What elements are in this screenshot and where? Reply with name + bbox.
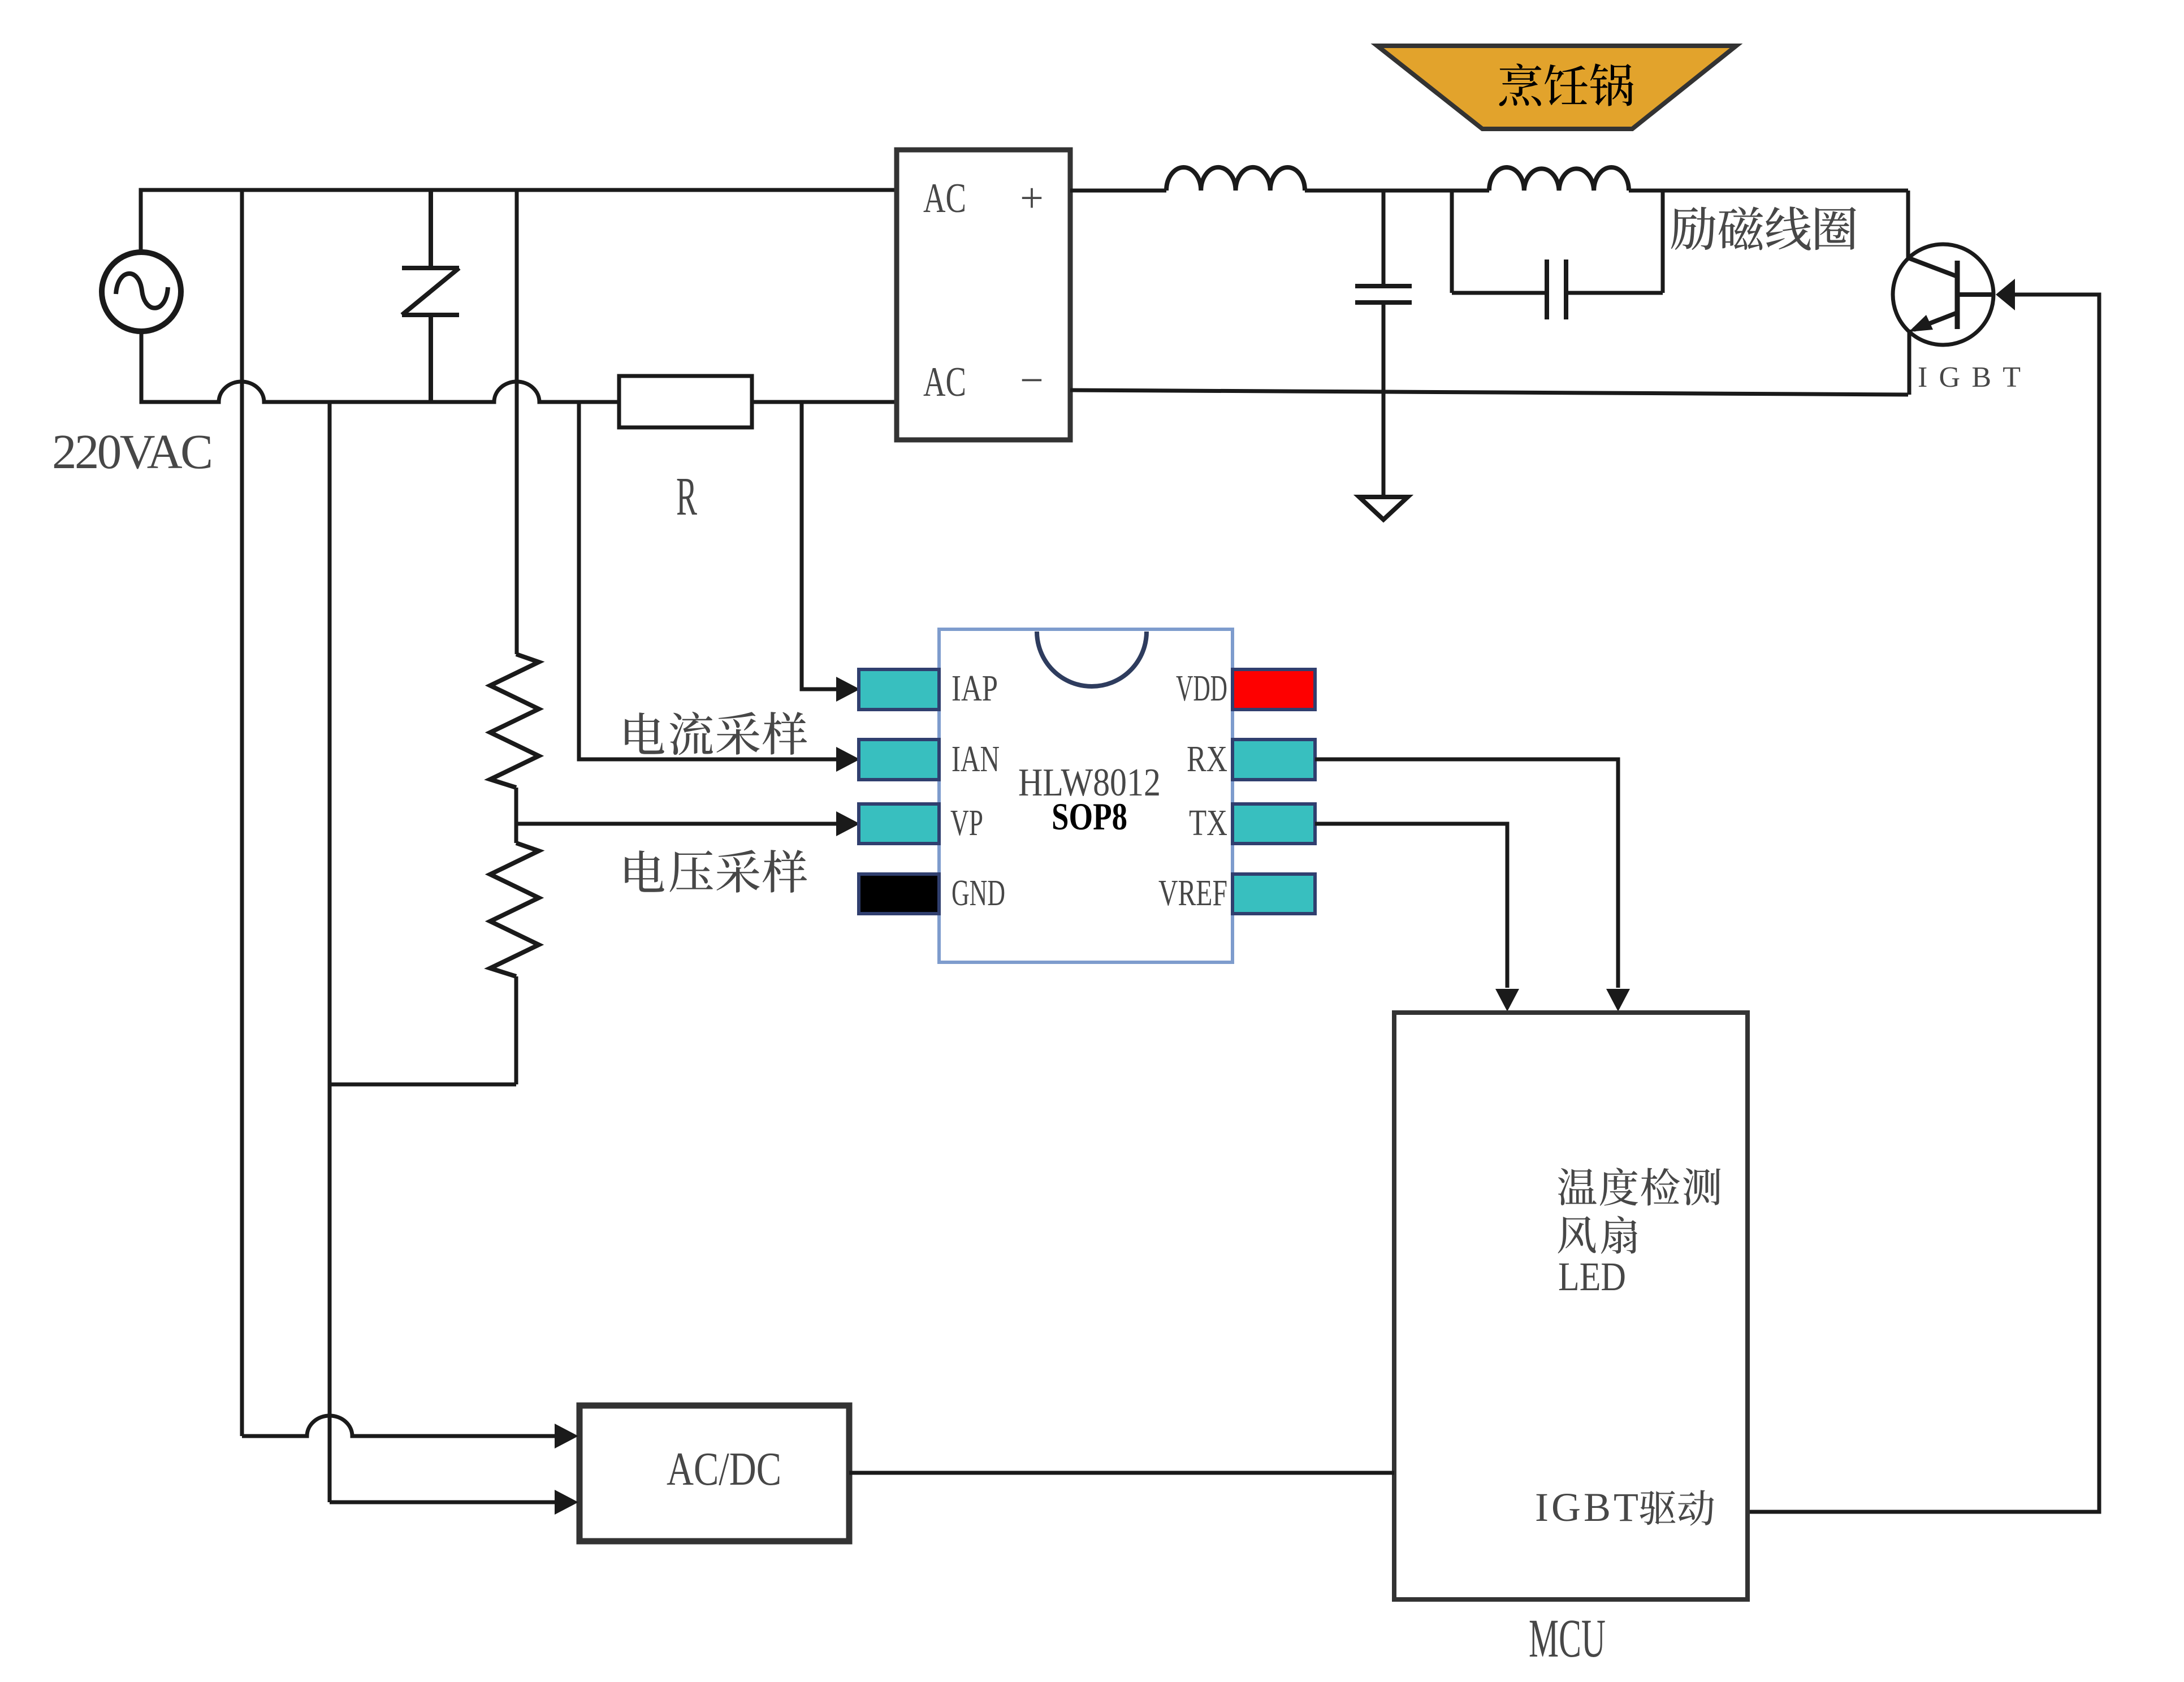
svg-text:AC/DC: AC/DC: [667, 1443, 781, 1495]
wire IAN tap (current sample -): [579, 402, 837, 759]
svg-text:TX: TX: [1189, 802, 1227, 844]
transistor Q1 IGBT: [1893, 191, 1993, 395]
svg-text:SOP8: SOP8: [1052, 795, 1127, 838]
ground: [1359, 497, 1408, 520]
wire AC/DC input 1 with hop: [242, 1416, 556, 1436]
wire R2 bottom stem: [514, 976, 518, 1084]
wire AC/DC input 2: [330, 1501, 556, 1504]
inductor L1 filter choke: [1166, 167, 1305, 191]
pin 2 IAN: [859, 740, 939, 780]
resistor R1 divider upper: [490, 654, 539, 788]
svg-text:LED: LED: [1558, 1254, 1626, 1299]
varistor RV1: [402, 190, 459, 402]
wire bottom rail N-line with hops: [141, 331, 619, 402]
pin 5 VREF: [1232, 874, 1315, 914]
svg-text:MCU: MCU: [1529, 1608, 1606, 1668]
wire top rail L-line: [141, 190, 897, 253]
resistor R2 divider lower: [490, 843, 539, 976]
wire bridge DC- rail: [1070, 390, 1908, 395]
capacitor C2 resonant with loop: [1452, 191, 1663, 319]
pin 1 IAP: [859, 669, 939, 710]
svg-text:AC: AC: [923, 175, 966, 222]
svg-text:+: +: [1020, 175, 1044, 222]
svg-text:VP: VP: [950, 802, 983, 844]
label 励磁线圈: [1671, 206, 1856, 250]
wire vertical N-tap to AC/DC and divider (node B): [328, 402, 332, 1502]
wire divider top stem: [515, 190, 519, 654]
wire TX to MCU: [1315, 824, 1507, 988]
AC source V1 220VAC: [102, 252, 181, 331]
svg-text:RX: RX: [1187, 738, 1227, 780]
wire R1-R2 link: [514, 788, 518, 843]
wire R to bridge: [752, 400, 897, 404]
label 电压采样: [625, 850, 807, 893]
capacitor C1 filter: [1355, 191, 1412, 496]
svg-text:IAN: IAN: [952, 738, 1000, 780]
svg-text:VREF: VREF: [1158, 872, 1227, 914]
pin 3 VP: [859, 804, 939, 844]
wire L2 to IGBT collector rail: [1629, 189, 1908, 193]
resistor R shunt: [619, 376, 752, 427]
wire divider bottom to node B: [330, 1083, 516, 1087]
label 风扇: [1558, 1216, 1637, 1253]
label 烹饪锅: [1499, 63, 1634, 106]
pin 7 RX: [1232, 740, 1315, 780]
svg-text:GND: GND: [952, 872, 1005, 914]
label 温度检测: [1558, 1168, 1720, 1205]
wire bridge DC+ out: [1070, 189, 1166, 193]
svg-text:IAP: IAP: [952, 668, 998, 709]
svg-text:VDD: VDD: [1176, 668, 1227, 709]
wire IGBT gate drive: [1996, 279, 2015, 310]
inductor L2 heating coil: [1489, 167, 1629, 191]
wire IAP tap (current sample +): [802, 402, 837, 689]
wire AC/DC output to MCU: [849, 1471, 1394, 1475]
svg-text:220VAC: 220VAC: [52, 424, 213, 479]
wire VP tap (voltage sample): [516, 822, 837, 826]
wire RX to MCU: [1315, 759, 1618, 988]
svg-text:−: −: [1020, 357, 1044, 404]
IC notch: [1037, 632, 1147, 686]
pin 6 TX: [1232, 804, 1315, 844]
label IGBT驱动 cjk: [1640, 1490, 1714, 1525]
svg-text:R: R: [676, 466, 697, 526]
IC U1 HLW8012 SOP8 body: [939, 629, 1232, 962]
wire L1 to L2: [1305, 189, 1489, 193]
pin 8 VDD: [1232, 669, 1315, 710]
svg-text:AC: AC: [923, 359, 966, 405]
bridge rectifier U2: [897, 150, 1070, 440]
pin 4 GND: [859, 874, 939, 914]
AC/DC converter block: [579, 1406, 849, 1541]
MCU block: [1394, 1013, 1748, 1599]
wire vertical from L-line to AC/DC (node A): [240, 190, 244, 1436]
cooking pot 烹饪锅: [1377, 46, 1736, 129]
label 电流采样: [625, 712, 807, 755]
